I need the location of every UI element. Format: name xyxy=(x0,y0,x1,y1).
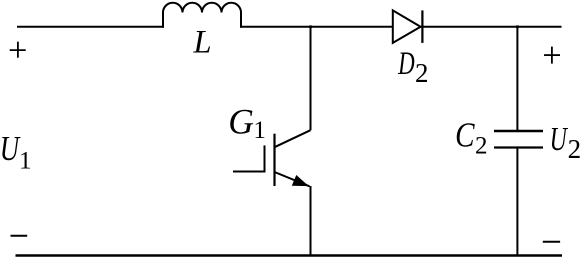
wire: top rail left segment (input + terminal to inductor L) xyxy=(17,26,164,28)
svg-text:U: U xyxy=(550,121,569,158)
terminal: output positive + xyxy=(544,47,560,64)
wire: capacitor C2 bottom plate to bottom rail xyxy=(516,148,518,256)
terminal: input negative − xyxy=(11,235,28,237)
svg-text:D: D xyxy=(397,46,414,82)
wire: G1 emitter branch to bottom rail xyxy=(310,186,312,256)
junction: capacitor C2 tap on top rail xyxy=(516,25,519,28)
svg-text:L: L xyxy=(193,25,212,61)
wire: top rail right segment (diode D2 cathode to output + terminal) xyxy=(421,26,562,28)
terminal: input positive + xyxy=(10,42,26,58)
label: U2 (output voltage) xyxy=(550,121,582,164)
svg-text:G: G xyxy=(228,102,254,142)
wire: top rail middle segment (inductor L to diode D2 anode) xyxy=(240,26,394,28)
inductor L xyxy=(163,3,241,28)
svg-text:C: C xyxy=(455,115,475,154)
diode D2 xyxy=(393,10,423,43)
terminal: output negative − xyxy=(543,241,560,243)
svg-text:2: 2 xyxy=(568,134,582,164)
svg-text:U: U xyxy=(0,128,21,167)
svg-text:1: 1 xyxy=(19,148,32,175)
label: G1 (IGBT gate reference) xyxy=(228,102,266,145)
svg-text:2: 2 xyxy=(475,133,488,160)
capacitor C2 xyxy=(494,131,543,148)
svg-text:2: 2 xyxy=(415,58,429,88)
transistor G1 (IGBT) xyxy=(265,130,311,186)
label: U1 (input voltage) xyxy=(0,128,31,174)
svg-text:1: 1 xyxy=(253,117,266,144)
wire: top rail tap to capacitor C2 top plate xyxy=(516,27,518,131)
wire: bottom rail (input − terminal to output − terminal) xyxy=(16,254,563,257)
label: C2 (capacitor reference) xyxy=(455,115,487,160)
wire: gate lead of G1 xyxy=(233,171,266,173)
wire: G1 collector branch from top rail xyxy=(310,27,312,131)
junction: IGBT G1 collector tap on top rail xyxy=(309,25,312,28)
label: D2 (diode reference) xyxy=(397,46,428,88)
